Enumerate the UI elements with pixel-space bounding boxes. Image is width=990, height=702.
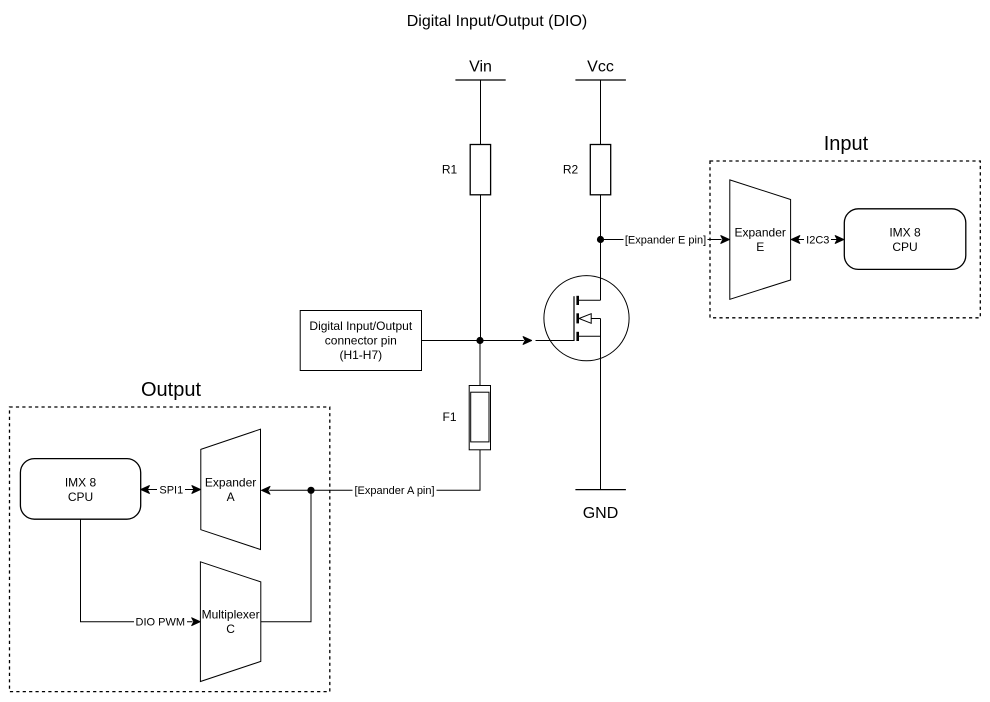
Q1 gate plate [573, 296, 575, 341]
mux Multiplexer C [200, 562, 260, 682]
svg-text:E: E [756, 240, 764, 254]
Q1 channel bar body [576, 313, 579, 323]
svg-text:SPI1: SPI1 [159, 484, 183, 496]
svg-text:CPU: CPU [892, 240, 917, 254]
wire DIO PWM from CPU to Multiplexer C with arrowhead [81, 519, 201, 628]
svg-text:(H1-H7): (H1-H7) [339, 348, 382, 362]
transistor Q1 (N-MOSFET) [536, 276, 630, 361]
Q1 body circle [544, 276, 629, 361]
Q1 source stub [579, 335, 601, 337]
svg-text:[Expander A pin]: [Expander A pin] [354, 485, 434, 497]
resistor R2 [563, 145, 611, 195]
svg-text:Vcc: Vcc [587, 58, 614, 75]
svg-text:R2: R2 [563, 163, 579, 177]
node IMX 8 CPU (output) [20, 459, 140, 520]
svg-text:DIO PWM: DIO PWM [136, 617, 186, 629]
svg-text:Vin: Vin [469, 58, 492, 75]
Q1 body diode arrow [579, 314, 591, 324]
Q1 body stub [591, 318, 600, 320]
svg-text:IMX 8: IMX 8 [889, 226, 921, 240]
mux Expander A [201, 429, 261, 549]
svg-text:[Expander E pin]: [Expander E pin] [625, 234, 706, 246]
wire SPI1 double arrow [141, 484, 201, 497]
Q1 channel bar drain [576, 296, 579, 305]
svg-text:Output: Output [141, 379, 201, 401]
svg-text:I2C3: I2C3 [806, 234, 829, 246]
svg-text:F1: F1 [442, 410, 456, 424]
resistor R1 [442, 145, 491, 195]
node IMX 8 CPU (input) [844, 209, 966, 270]
svg-text:IMX 8: IMX 8 [65, 475, 97, 489]
svg-text:connector pin: connector pin [325, 334, 397, 348]
wire fuse F1 down and left to Expander A with arrowhead [262, 450, 481, 497]
svg-text:Digital Input/Output: Digital Input/Output [309, 319, 412, 333]
node junction on Vcc net [597, 236, 604, 243]
svg-text:GND: GND [583, 505, 619, 522]
svg-text:C: C [226, 622, 235, 636]
wire Vcc to R2 [600, 80, 602, 145]
Q1 drain stub [579, 299, 601, 301]
Output section dashed box [10, 379, 330, 692]
Q1 gate lead [536, 340, 575, 342]
svg-text:Expander: Expander [205, 475, 256, 489]
wire I2C3 double arrow [791, 234, 843, 247]
power terminal Vcc [575, 58, 626, 80]
mux Expander E [730, 180, 791, 299]
svg-text:Expander: Expander [735, 226, 786, 240]
wire DIO box to MOSFET gate with arrowhead [422, 337, 532, 345]
wire junction down to Multiplexer C [261, 490, 311, 621]
Q1 channel bar source [576, 332, 579, 341]
svg-text:CPU: CPU [68, 490, 93, 504]
wire junction to fuse F1 [479, 341, 481, 386]
node junction output net [307, 487, 314, 494]
ground GND [575, 490, 626, 522]
svg-text:Multiplexer: Multiplexer [202, 608, 260, 622]
svg-text:Digital Input/Output (DIO): Digital Input/Output (DIO) [407, 13, 588, 30]
wire R1 to gate node [480, 195, 482, 341]
fuse F1 [442, 386, 490, 450]
svg-text:R1: R1 [442, 163, 458, 177]
wire Vin to R1 [480, 80, 482, 145]
wire R2 to MOSFET drain [600, 195, 602, 300]
node DIO connector pin box [300, 311, 421, 371]
Input section dashed box [710, 133, 980, 318]
svg-text:Input: Input [824, 133, 869, 155]
node junction gate net [476, 337, 483, 344]
svg-text:A: A [227, 490, 235, 504]
power terminal Vin [455, 58, 505, 80]
wire MOSFET source to GND [600, 319, 602, 490]
wire [Expander E pin] to Expander E with arrowhead [601, 233, 730, 246]
